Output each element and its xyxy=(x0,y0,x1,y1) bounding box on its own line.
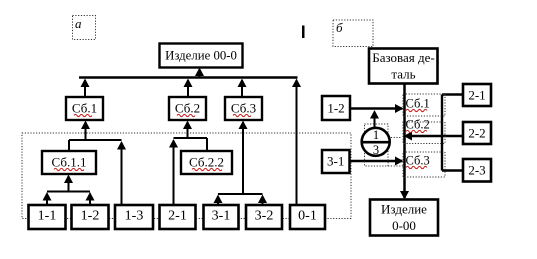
svg-text:Сб.2: Сб.2 xyxy=(175,101,200,116)
svg-text:2-1: 2-1 xyxy=(168,209,187,224)
svg-text:0-1: 0-1 xyxy=(298,209,317,224)
svg-text:2-1: 2-1 xyxy=(468,88,485,103)
svg-text:Изделие 00-0: Изделие 00-0 xyxy=(165,49,237,63)
svg-text:б: б xyxy=(336,20,343,35)
svg-text:2-3: 2-3 xyxy=(468,163,485,178)
svg-text:1-2: 1-2 xyxy=(81,209,100,224)
svg-text:таль: таль xyxy=(391,67,415,82)
svg-text:Сб.2.2: Сб.2.2 xyxy=(189,155,224,170)
svg-text:Сб.1: Сб.1 xyxy=(72,101,97,116)
svg-text:3-2: 3-2 xyxy=(255,209,274,224)
svg-text:3: 3 xyxy=(373,143,379,157)
svg-text:1: 1 xyxy=(373,128,379,142)
svg-text:0-00: 0-00 xyxy=(392,218,416,233)
svg-text:3-1: 3-1 xyxy=(327,154,344,169)
svg-text:1-3: 1-3 xyxy=(125,209,144,224)
svg-text:Сб.3: Сб.3 xyxy=(406,154,430,168)
svg-text:а: а xyxy=(75,16,82,31)
svg-text:Сб.2: Сб.2 xyxy=(406,118,430,132)
svg-text:Сб.3: Сб.3 xyxy=(231,101,256,116)
svg-text:Изделие: Изделие xyxy=(381,202,427,217)
svg-text:1-1: 1-1 xyxy=(38,209,57,224)
svg-text:2-2: 2-2 xyxy=(468,126,485,141)
svg-text:Сб.1.1: Сб.1.1 xyxy=(52,155,87,170)
svg-text:Базовая де-: Базовая де- xyxy=(372,50,434,65)
svg-text:1-2: 1-2 xyxy=(327,101,344,116)
svg-text:Сб.1: Сб.1 xyxy=(406,97,430,111)
svg-text:3-1: 3-1 xyxy=(212,209,231,224)
